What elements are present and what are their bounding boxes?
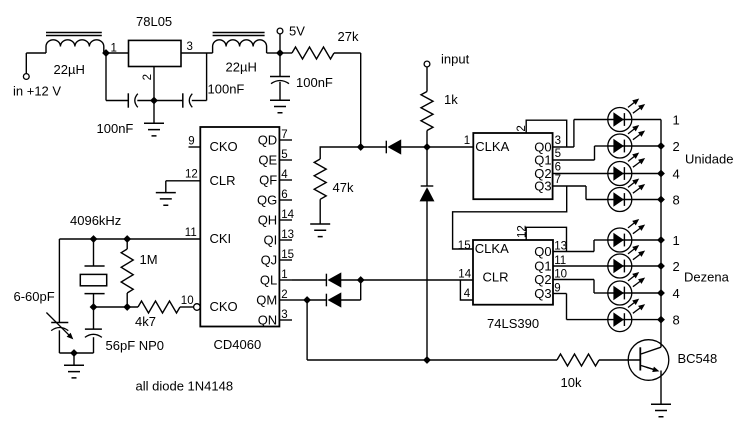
svg-text:QM: QM: [256, 293, 277, 308]
label input: [441, 51, 470, 66]
node bus dezena 4: [657, 289, 665, 297]
wire pin12 to Q0 second 390: [526, 227, 566, 251]
wire QM to D4: [292, 299, 307, 301]
pin 6 QG of CD4060: [257, 189, 292, 207]
label CKO top: [210, 139, 238, 154]
svg-text:2: 2: [673, 139, 680, 154]
svg-text:QJ: QJ: [261, 253, 278, 268]
label 4k7: [135, 314, 156, 329]
terminal in +12V: [23, 53, 29, 79]
label Dezena: [684, 269, 730, 284]
svg-text:12: 12: [185, 169, 198, 181]
svg-text:13: 13: [281, 229, 294, 241]
node bus unidade 8: [657, 196, 665, 204]
wire Q2 second to LED D4: [553, 280, 608, 294]
pin 12 CLR wire: [166, 181, 201, 193]
label CLR second: [483, 270, 509, 285]
capacitor C5 56pF NP0: [85, 307, 102, 353]
node D2 bottom junction: [423, 356, 431, 364]
svg-text:4: 4: [673, 166, 680, 181]
wire Q1 second to LED D2: [553, 265, 608, 267]
pin 12 rotated label second 390: [516, 225, 528, 238]
svg-text:100nF: 100nF: [97, 121, 134, 136]
wire D1 junction to CLKA pin1: [427, 146, 473, 148]
node pin2 ground junction: [150, 97, 158, 105]
pin 2 rotated label first 390: [516, 125, 528, 131]
svg-text:4k7: 4k7: [135, 314, 156, 329]
svg-text:56pF NP0: 56pF NP0: [106, 338, 165, 353]
svg-text:22µH: 22µH: [226, 60, 257, 75]
svg-text:CD4060: CD4060: [214, 337, 262, 352]
svg-text:Dezena: Dezena: [684, 269, 730, 284]
svg-text:CKO: CKO: [210, 139, 238, 154]
wire CLR pin14 to pin4 tie: [460, 280, 473, 300]
svg-text:CLR: CLR: [483, 270, 509, 285]
wire LED dezena 2 to bus: [632, 265, 661, 267]
pin 3 QN of CD4060: [258, 309, 292, 327]
node 1M bottom junction: [123, 303, 131, 311]
wire QL junction to CLR pin14: [361, 279, 474, 281]
svg-text:13: 13: [554, 240, 567, 252]
svg-text:11: 11: [185, 227, 197, 239]
diode D1 1N4148: [386, 140, 427, 154]
svg-text:100nF: 100nF: [208, 81, 245, 96]
label CKI: [210, 231, 232, 246]
pin 5 Q1 of first 74LS390: [534, 148, 561, 168]
wire 27k down to CLKA line: [360, 53, 362, 147]
pin 5 QE of CD4060: [258, 149, 292, 167]
svg-text:6: 6: [555, 161, 561, 173]
pin 7 Q3 of first 74LS390: [534, 174, 561, 194]
wire left down to trimmer: [58, 239, 60, 323]
wire Q0 first to LED U1: [553, 120, 608, 148]
node QL bus junction: [357, 276, 365, 284]
svg-text:3: 3: [555, 135, 561, 147]
label dezena 1: [673, 233, 680, 248]
node crystal top junction: [90, 235, 98, 243]
pin 10 Q2 of second 74LS390: [534, 268, 567, 287]
label CD4060: [214, 337, 262, 352]
resistor R6 10k: [557, 354, 640, 366]
resistor R3 47k: [314, 147, 361, 224]
svg-text:78L05: 78L05: [136, 14, 172, 29]
wire LED dezena 4 to bus: [632, 292, 661, 294]
pin 13 Q0 of second 74LS390: [534, 240, 567, 259]
pin 4 QF of CD4060: [259, 169, 292, 187]
svg-text:QF: QF: [259, 173, 277, 188]
wire LED unidade 1 to bus: [632, 119, 661, 121]
LED unidade 2: [608, 126, 645, 159]
label L1 value 22µH: [54, 62, 85, 77]
svg-text:2: 2: [142, 74, 154, 80]
svg-text:CLKA: CLKA: [475, 241, 509, 256]
svg-text:QG: QG: [257, 193, 277, 208]
pin 1 QL of CD4060: [260, 269, 292, 287]
ground under 78L05 pin2: [144, 101, 164, 136]
wire QM rail to 10k: [427, 359, 557, 361]
wire pin1 node down to input cap rail: [106, 53, 128, 101]
LED dezena 4: [608, 273, 645, 306]
pin number 11: [185, 227, 197, 239]
svg-text:QD: QD: [258, 133, 278, 148]
label 27k: [338, 29, 359, 44]
label dezena 4: [673, 286, 680, 301]
terminal input: [424, 61, 430, 91]
svg-text:8: 8: [673, 312, 680, 327]
svg-text:1: 1: [111, 42, 117, 54]
diode D3 1N4148 at QL: [326, 273, 360, 287]
node oscillator ground junction: [70, 349, 78, 357]
wire LED unidade 8 to bus: [632, 199, 661, 201]
pin number 10: [181, 295, 194, 307]
inductor L1 22uH: [46, 33, 104, 54]
node 1M top junction: [123, 235, 131, 243]
label 56pF NP0: [106, 338, 165, 353]
svg-text:1k: 1k: [444, 92, 458, 107]
label 74LS390: [487, 316, 539, 331]
pin number 14 CLR: [458, 269, 471, 281]
ground oscillator: [64, 353, 84, 378]
LED dezena 2: [608, 246, 645, 279]
wire pin2 to Q0 first 390: [526, 120, 567, 147]
label C3 100nF: [296, 75, 333, 90]
resistor R5 4k7: [138, 301, 194, 313]
pin number 15 CLKA second: [458, 240, 471, 252]
inductor L2 22uH: [213, 33, 267, 54]
node bus dezena 1: [657, 236, 665, 244]
label 1k: [444, 92, 458, 107]
terminal 5V: [277, 28, 283, 53]
LED dezena 1: [608, 220, 645, 253]
pin 6 Q2 of first 74LS390: [534, 161, 561, 181]
resistor R1 27k: [280, 47, 361, 59]
LED unidade 8: [608, 179, 645, 212]
svg-text:100nF: 100nF: [296, 75, 333, 90]
wire trimmer and 56pF bottom rail: [59, 352, 93, 354]
pin 7 QD of CD4060: [258, 129, 292, 147]
label CLR: [210, 173, 236, 188]
svg-text:Q3: Q3: [534, 286, 551, 301]
wire LED cathode bus: [660, 120, 662, 348]
diode D2 1N4148 vertical: [420, 147, 434, 360]
svg-text:15: 15: [458, 240, 471, 252]
svg-text:47k: 47k: [333, 180, 354, 195]
svg-text:5: 5: [555, 148, 561, 160]
svg-text:74LS390: 74LS390: [487, 316, 539, 331]
svg-text:in +12 V: in +12 V: [13, 84, 61, 99]
pin number 4: [464, 288, 471, 300]
diode D4 1N4148 at QM: [307, 293, 361, 307]
resistor R2 1k: [421, 92, 433, 148]
node bus dezena 8: [657, 316, 665, 324]
node 5V rail junction: [276, 49, 284, 57]
pin 3 Q0 of first 74LS390: [534, 135, 561, 155]
svg-text:4: 4: [281, 169, 288, 181]
label 1M: [140, 252, 158, 267]
node crystal bottom junction: [90, 303, 98, 311]
pin 13 QI of CD4060: [263, 229, 294, 247]
pin 14 QH of CD4060: [258, 209, 295, 227]
svg-text:10: 10: [554, 268, 567, 280]
svg-text:4: 4: [464, 288, 471, 300]
IC U2 CD4060 body: [200, 127, 279, 327]
svg-text:Unidade: Unidade: [685, 152, 733, 167]
svg-text:14: 14: [281, 209, 294, 221]
svg-text:1: 1: [281, 269, 287, 281]
node 47k junction: [357, 143, 365, 151]
ground under transistor emitter: [651, 404, 671, 417]
svg-text:11: 11: [554, 255, 566, 267]
pin 9 Q3 of second 74LS390: [534, 282, 560, 301]
wire oscillator top rail to CKI pin11: [59, 238, 200, 240]
node bus unidade 2: [657, 142, 665, 150]
regulator U1 78L05: [129, 40, 182, 66]
pin 2 QM of CD4060: [256, 289, 292, 307]
label CLKA first: [475, 139, 509, 154]
svg-text:Q3: Q3: [534, 179, 551, 194]
svg-text:3: 3: [281, 309, 287, 321]
pin number 12: [185, 169, 198, 181]
svg-text:QE: QE: [258, 153, 277, 168]
wire LED dezena 1 to bus: [632, 239, 661, 241]
wire crystal bottom rail: [94, 306, 139, 308]
svg-text:all diode 1N4148: all diode 1N4148: [136, 378, 234, 393]
label L2 value 22µH: [226, 60, 257, 75]
node bus unidade 4: [657, 170, 665, 178]
label 78L05: [136, 14, 172, 29]
svg-text:QN: QN: [258, 313, 278, 328]
pin 9 stub CKO: [189, 146, 201, 148]
svg-text:CLR: CLR: [210, 173, 236, 188]
wire Q1 first to LED U2: [553, 146, 608, 160]
svg-text:4096kHz: 4096kHz: [70, 213, 121, 228]
LED unidade 4: [608, 153, 645, 186]
node input junction on CLKA line: [423, 143, 431, 151]
pin number 3 of 78L05: [187, 41, 193, 53]
svg-text:QH: QH: [258, 213, 278, 228]
svg-text:14: 14: [458, 269, 471, 281]
ground under 47k: [310, 224, 330, 237]
label unidade 1: [673, 112, 680, 127]
transistor Q1 BC548: [628, 340, 669, 405]
svg-text:8: 8: [673, 192, 680, 207]
wire Q3 first to LED U8: [553, 186, 608, 200]
wire 78L05 pin3 to L2: [181, 52, 213, 54]
svg-text:4: 4: [673, 286, 680, 301]
svg-text:22µH: 22µH: [54, 62, 85, 77]
label C1 100nF: [97, 121, 134, 136]
svg-text:Q2: Q2: [534, 272, 551, 287]
node QM junction: [303, 296, 311, 304]
capacitor C2 100nF output: [154, 93, 207, 107]
wire QL to D3: [292, 279, 326, 281]
label dezena 2: [673, 259, 680, 274]
IC U4 74LS390 second body: [473, 240, 553, 305]
label unidade 2: [673, 139, 680, 154]
capacitor C4 trimmer 6-60pF: [46, 313, 72, 354]
label 47k: [333, 180, 354, 195]
svg-text:CKO: CKO: [210, 299, 238, 314]
pin number 9: [188, 136, 194, 148]
svg-text:QI: QI: [263, 233, 277, 248]
crystal X1 4096kHz: [80, 239, 106, 307]
capacitor C3 100nF at 5V rail: [270, 53, 290, 100]
wire LED unidade 2 to bus: [632, 145, 661, 147]
svg-text:CKI: CKI: [210, 231, 232, 246]
svg-text:10: 10: [181, 295, 194, 307]
svg-text:2: 2: [281, 289, 287, 301]
wire input terminal to L1: [26, 52, 46, 54]
wire C2 up to pin3 line: [206, 53, 208, 101]
wire Q2 first to LED U4: [553, 173, 608, 175]
svg-text:BC548: BC548: [678, 351, 718, 366]
wire bus QL to QM: [360, 280, 362, 300]
wire Q3 second to LED D8: [553, 294, 608, 320]
label CLKA second: [475, 241, 509, 256]
capacitor C1 100nF input: [128, 93, 154, 107]
resistor R4 1M: [121, 239, 133, 307]
pin 11 Q1 of second 74LS390: [534, 255, 566, 274]
node pin1 junction: [102, 49, 110, 57]
svg-text:Q0: Q0: [534, 244, 551, 259]
label BC548: [678, 351, 718, 366]
label 4096kHz: [70, 213, 121, 228]
svg-text:CLKA: CLKA: [475, 139, 509, 154]
wire L2 to 5V node: [267, 52, 280, 54]
wire LED unidade 4 to bus: [632, 173, 661, 175]
LED unidade 1: [608, 99, 645, 132]
wire 78L05 pin2 down: [153, 67, 155, 101]
svg-text:input: input: [441, 51, 470, 66]
label Unidade: [685, 152, 733, 167]
svg-text:9: 9: [554, 282, 560, 294]
IC U3 74LS390 first body: [473, 133, 552, 199]
label all diode 1N4148: [136, 378, 234, 393]
pin 15 QJ of CD4060: [261, 249, 294, 267]
svg-text:5V: 5V: [289, 23, 305, 38]
wire Q3 first cascade to CLKA second: [453, 186, 567, 249]
svg-text:15: 15: [281, 249, 294, 261]
svg-text:1: 1: [464, 135, 470, 147]
label in +12 V: [13, 84, 61, 99]
ground under C3: [270, 100, 290, 113]
wire QM junction down to 10k rail: [307, 300, 427, 360]
svg-text:1: 1: [673, 233, 680, 248]
svg-text:27k: 27k: [338, 29, 359, 44]
pin 10 bubble of CD4060: [194, 304, 201, 311]
wire LED dezena 8 to bus: [632, 319, 661, 321]
pin number 1 CLKA: [464, 135, 470, 147]
wire Q0 second to LED D1: [553, 240, 608, 252]
svg-text:5: 5: [281, 149, 287, 161]
svg-text:10k: 10k: [561, 375, 582, 390]
wire L1 to 78L05 pin1: [104, 52, 129, 54]
svg-text:6: 6: [281, 189, 287, 201]
LED dezena 8: [608, 299, 645, 332]
label 10k: [561, 375, 582, 390]
svg-text:6-60pF: 6-60pF: [14, 289, 55, 304]
label C2 100nF: [208, 81, 245, 96]
svg-text:1: 1: [673, 112, 680, 127]
label CKO bottom: [210, 299, 238, 314]
svg-text:9: 9: [188, 136, 194, 148]
node bus dezena 2: [657, 262, 665, 270]
label 5V: [289, 23, 305, 38]
label unidade 4: [673, 166, 680, 181]
svg-text:QL: QL: [260, 273, 277, 288]
label unidade 8: [673, 192, 680, 207]
pin number 1 of 78L05: [111, 42, 117, 54]
wire bus to D1: [361, 146, 387, 148]
ground at CLR pin12: [156, 193, 176, 206]
svg-text:2: 2: [673, 259, 680, 274]
svg-text:1M: 1M: [140, 252, 158, 267]
pin number 2 of 78L05 rotated: [142, 74, 154, 80]
label dezena 8: [673, 312, 680, 327]
svg-text:3: 3: [187, 41, 193, 53]
svg-text:7: 7: [555, 174, 561, 186]
svg-text:7: 7: [281, 129, 287, 141]
label 6-60pF: [14, 289, 55, 304]
